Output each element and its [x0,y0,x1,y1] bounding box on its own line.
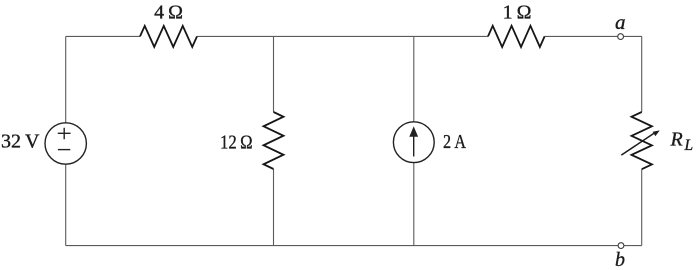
wire top-left segment [66,35,140,37]
svg-text:L: L [684,137,694,154]
wire 2A branch lower [413,163,415,246]
wire bottom [66,245,618,247]
voltage source 32V circle [45,123,86,164]
resistor 1 ohm [488,26,545,47]
svg-text:32 V: 32 V [1,130,40,152]
svg-text:R: R [670,129,683,151]
resistor 12 ohm [264,112,284,169]
plus sign [58,128,71,139]
svg-text:4 Ω: 4 Ω [154,2,183,24]
resistor 4 ohm [140,26,197,47]
wire left side lower [65,164,67,245]
svg-text:12 Ω: 12 Ω [220,132,253,154]
current source 2A circle [393,122,434,163]
wire 12-ohm branch upper [273,36,275,112]
resistor RL variable [632,112,652,169]
terminal b [618,243,624,249]
wire left side upper [65,36,67,122]
terminal a [618,34,624,40]
arrow through RL [621,132,655,155]
wire 12-ohm branch lower [273,169,275,246]
wire right side upper [641,36,643,112]
svg-text:2 A: 2 A [443,132,466,153]
svg-text:b: b [615,249,625,270]
minus sign [58,149,70,151]
arrow head [409,126,418,137]
svg-text:a: a [615,10,626,34]
svg-text:1 Ω: 1 Ω [503,2,532,24]
wire 2A branch upper [413,36,415,121]
wire top-middle segment [197,35,488,37]
wire bottom-right corner to node b [624,245,642,247]
arrow shaft [413,135,415,157]
wire right side lower [641,169,643,245]
wire top-right to node a [545,35,618,37]
wire node a to top-right corner [624,35,642,37]
